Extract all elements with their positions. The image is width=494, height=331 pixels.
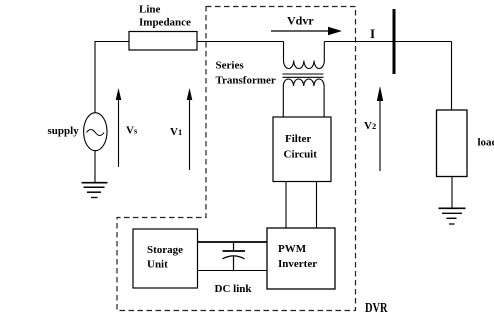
svg-text:I: I (370, 26, 375, 41)
wire: bus to load (451, 42, 453, 111)
wire: storage to PWM (bottom DC rail) (198, 270, 268, 272)
ground (supply) (82, 183, 108, 198)
filter circuit box (273, 117, 331, 182)
wire: filter to PWM inverter (left) (285, 182, 287, 229)
arrow V2 (379, 99, 381, 171)
svg-text:Series: Series (216, 60, 245, 72)
transformer T1 secondary winding (283, 79, 324, 117)
arrow Vs (118, 98, 120, 167)
svg-text:Unit: Unit (147, 259, 168, 271)
svg-text:Line: Line (139, 4, 161, 16)
svg-text:Filter: Filter (285, 133, 311, 145)
arrow Vdvr (271, 30, 333, 32)
svg-text:PWM: PWM (278, 243, 307, 255)
voltage source supply (84, 113, 107, 151)
svg-text:Storage: Storage (147, 244, 183, 256)
storage unit box (133, 229, 198, 288)
svg-text:load: load (478, 137, 494, 149)
svg-text:V1: V1 (170, 126, 182, 138)
svg-text:V2: V2 (364, 120, 376, 132)
arrow V1 (189, 98, 191, 170)
svg-text:Circuit: Circuit (284, 149, 318, 161)
capacitor C (DC link) (233, 242, 235, 251)
wire: transformer to bus (324, 41, 451, 43)
wire: storage to PWM (top DC rail) (198, 241, 268, 243)
svg-text:Vs: Vs (126, 125, 138, 137)
svg-text:Transformer: Transformer (216, 75, 276, 87)
svg-text:DVR: DVR (365, 301, 388, 316)
wire: line impedance to transformer primary (197, 41, 284, 43)
svg-text:DC link: DC link (215, 283, 253, 295)
svg-text:supply: supply (48, 125, 80, 137)
load box (437, 110, 468, 177)
svg-text:Vdvr: Vdvr (287, 14, 314, 28)
wire: supply to ground (94, 151, 96, 182)
resistor (Line Impedance) (129, 32, 197, 51)
dashed DVR boundary (117, 7, 356, 311)
sine wave (87, 130, 105, 136)
transformer T1 primary winding (284, 42, 325, 69)
svg-text:Impedance: Impedance (139, 17, 191, 29)
wire: filter to PWM inverter (right) (316, 182, 318, 229)
wire: supply to line impedance (95, 42, 129, 114)
svg-text:Inverter: Inverter (278, 258, 317, 270)
PWM inverter box (267, 228, 335, 289)
bus bar node (393, 9, 396, 74)
ground (load) (439, 208, 466, 224)
transformer T1 core (283, 73, 324, 75)
wire: load to ground (451, 177, 453, 208)
